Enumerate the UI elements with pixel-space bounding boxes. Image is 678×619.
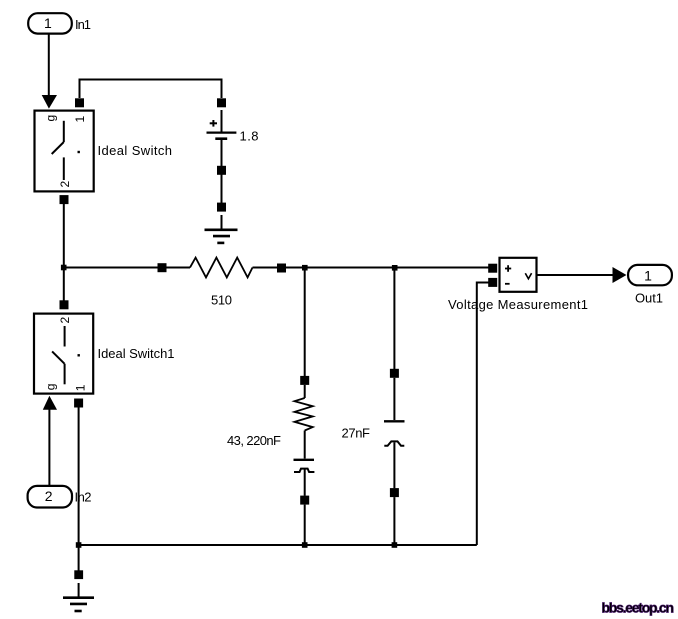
capacitor 27nF xyxy=(384,369,405,545)
wire DC source to Ground1 xyxy=(221,174,223,203)
junction bottom rail at ground stub xyxy=(76,542,82,548)
svg-text:g: g xyxy=(43,115,57,122)
port square DC source + terminal xyxy=(217,98,226,107)
svg-text:43, 220nF: 43, 220nF xyxy=(227,433,281,448)
ground Ground1 xyxy=(205,215,238,243)
svg-text:Ideal Switch: Ideal Switch xyxy=(98,143,173,158)
wire resistor to Voltage Measurement + (through node B, node C) xyxy=(286,267,489,269)
wire Voltage Measurement output to Out1 xyxy=(538,274,614,276)
resistor R 510 xyxy=(158,258,287,278)
svg-text:In2: In2 xyxy=(75,490,92,505)
svg-text:2: 2 xyxy=(58,316,72,323)
junction bottom rail at capacitor xyxy=(392,542,398,548)
wire Ideal Switch port1 to DC source (top elbow) xyxy=(80,80,222,99)
svg-text:g: g xyxy=(43,384,57,391)
inport In2 xyxy=(28,486,72,508)
voltage measurement block xyxy=(500,258,537,292)
port square DC source - terminal xyxy=(217,166,226,175)
gate dot Ideal Switch xyxy=(78,151,80,153)
inport In1 xyxy=(28,13,72,33)
switch symbol Ideal Switch xyxy=(52,121,64,180)
arrowhead into g port of Ideal Switch xyxy=(42,95,57,109)
junction bottom rail at RC branch xyxy=(302,542,308,548)
svg-text:Voltage Measurement1: Voltage Measurement1 xyxy=(448,297,588,312)
svg-text:2: 2 xyxy=(58,181,72,188)
svg-text:510: 510 xyxy=(211,293,232,308)
wire Voltage Measurement - to bottom rail xyxy=(477,283,489,546)
svg-text:1.8: 1.8 xyxy=(240,129,259,144)
port square Ideal Switch1 port 2 xyxy=(60,300,69,309)
node B junction xyxy=(302,265,308,271)
port square Voltage Measurement + xyxy=(488,264,497,273)
ground Ground2 xyxy=(63,583,94,611)
svg-text:27nF: 27nF xyxy=(342,426,371,441)
wire In1 to Ideal Switch g port xyxy=(48,35,50,97)
svg-text:Out1: Out1 xyxy=(635,291,663,306)
svg-text:1: 1 xyxy=(44,15,52,31)
svg-text:1: 1 xyxy=(73,384,87,391)
node C junction xyxy=(392,265,398,271)
wire node A to resistor xyxy=(64,267,158,269)
arrowhead into g port of Ideal Switch1 xyxy=(43,396,57,410)
wire node B down to series RC branch xyxy=(304,268,306,377)
port square Ideal Switch1 port 1 xyxy=(74,399,83,408)
port square Ground1 xyxy=(217,203,226,212)
block Ideal Switch1 xyxy=(34,314,93,394)
dc voltage source 1.8 xyxy=(207,110,237,166)
svg-text:In1: In1 xyxy=(75,17,91,32)
block Ideal Switch xyxy=(35,111,94,192)
port square Ground2 xyxy=(74,570,83,579)
wire Ideal Switch1 port1 down to bottom rail xyxy=(78,408,80,546)
gate dot Ideal Switch1 xyxy=(78,354,80,356)
arrowhead into Out1 xyxy=(613,267,627,283)
series RC branch 43, 220nF xyxy=(294,376,315,545)
svg-text:1: 1 xyxy=(73,115,87,122)
svg-text:1: 1 xyxy=(644,267,652,283)
outport Out1 xyxy=(628,265,672,285)
switch symbol Ideal Switch1 xyxy=(52,326,65,384)
wire Ideal Switch port2 to node A and on to Ideal Switch1 port 2 xyxy=(63,204,65,301)
wire bottom rail to Ground2 xyxy=(78,545,80,571)
svg-text:Ideal Switch1: Ideal Switch1 xyxy=(98,346,175,361)
node A junction xyxy=(61,265,67,271)
wire In2 to Ideal Switch1 g port xyxy=(48,409,50,486)
wire node C down to capacitor 27nF xyxy=(393,268,395,370)
svg-text:bbs.eetop.cn: bbs.eetop.cn xyxy=(602,600,675,616)
svg-text:2: 2 xyxy=(45,488,53,504)
port square Ideal Switch port 1 xyxy=(75,98,84,107)
port square Ideal Switch port 2 xyxy=(60,195,69,204)
bottom rail wire xyxy=(79,544,477,546)
port square Voltage Measurement - xyxy=(488,278,497,287)
